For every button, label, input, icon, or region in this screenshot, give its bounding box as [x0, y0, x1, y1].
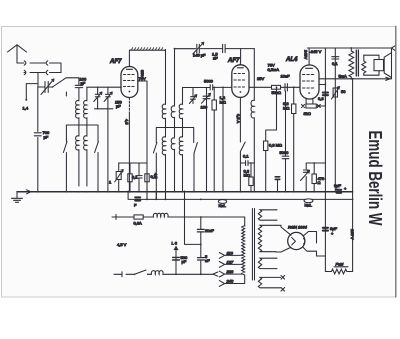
mains RF choke upper	[143, 213, 245, 217]
voltage selector fork 240	[219, 275, 244, 286]
rectifier tube RGN1064	[288, 232, 305, 249]
capacitor 0,1uF on screen line	[332, 57, 339, 59]
output transformer primary	[349, 48, 354, 79]
resistor 0,3M	[264, 141, 268, 191]
svg-text:140 pF: 140 pF	[193, 53, 206, 58]
svg-text:nF: nF	[213, 56, 218, 61]
heater sub-line below bus	[128, 191, 353, 199]
svg-text:0,5mA: 0,5mA	[268, 67, 280, 72]
mains filter cap branch	[200, 216, 202, 275]
wire: AF7 no.2 cathode down with switch	[240, 97, 245, 191]
ground symbol	[12, 192, 23, 203]
svg-text:5000: 5000	[280, 150, 290, 155]
grid line into AF7 no.2 with series cap 5000pF	[183, 85, 232, 90]
capacitor 5000pF mains	[198, 258, 205, 260]
voltage selector fork 127	[219, 262, 241, 268]
wire: feed line of above-bus components	[119, 162, 147, 164]
trimmer on grid line	[189, 88, 196, 104]
antenna coil L4 (lower)	[84, 125, 87, 186]
resistor 470	[312, 162, 316, 191]
antenna	[8, 45, 27, 63]
wire: to transformer primary top	[244, 217, 246, 226]
trimmer 140pF	[193, 42, 204, 54]
trimmer T2	[104, 87, 112, 109]
primary taps	[0, 0, 1, 1]
svg-text:AF7: AF7	[227, 58, 240, 64]
switch blade right of coil unit	[95, 142, 99, 192]
svg-text:4,5 V: 4,5 V	[117, 242, 127, 247]
mains RF choke lower	[151, 271, 213, 276]
switch blade (band switch)	[52, 78, 79, 88]
output transformer secondary	[362, 55, 366, 75]
svg-text:1,4: 1,4	[23, 106, 29, 111]
rectifier output lead	[303, 232, 316, 244]
antenna coil L2	[84, 87, 87, 125]
components row above bus: var resistor	[115, 163, 124, 191]
wire: trimmer bottom rail	[95, 109, 113, 191]
svg-text:350: 350	[140, 70, 145, 77]
capacitor coupling to AL4	[285, 84, 287, 91]
svg-text:MΩ: MΩ	[283, 106, 289, 111]
rectifier filament loop	[276, 247, 325, 256]
resistor 0,8M AL4 grid leak	[292, 86, 296, 191]
secondary S2 HV	[258, 225, 276, 251]
wire: plate line 5mA to output transformer	[319, 47, 392, 80]
svg-text:5mA: 5mA	[339, 74, 348, 79]
svg-text:0,1: 0,1	[332, 61, 338, 66]
svg-text:11nF: 11nF	[205, 228, 214, 233]
capacitor 100pF	[75, 78, 83, 101]
svg-text:NaL: NaL	[219, 203, 227, 208]
svg-text:0,3 MΩ: 0,3 MΩ	[269, 143, 282, 148]
svg-text:0,8: 0,8	[318, 96, 324, 101]
svg-text:5000: 5000	[204, 79, 214, 84]
fuse NaL right	[304, 199, 313, 203]
svg-text:pF: pF	[116, 104, 121, 109]
anode coil AF7 no.2	[251, 100, 254, 191]
svg-text:AF7: AF7	[109, 59, 122, 65]
svg-text:0,5 A: 0,5 A	[236, 114, 241, 123]
capacitor 5000pF to bus	[275, 91, 289, 191]
svg-text:245V: 245V	[304, 50, 309, 60]
tube AF7 no.2 top cap wire	[240, 49, 242, 63]
secondary S4 bottom	[258, 277, 280, 287]
lamp arrow L6	[173, 246, 178, 275]
svg-text:195 V: 195 V	[350, 229, 355, 240]
antenna coil L3 (lower)	[76, 136, 79, 186]
wire: AVC return line	[222, 87, 224, 192]
svg-text:Emud Berlin W: Emud Berlin W	[365, 131, 385, 226]
wire: bus drop to mains filter caps	[185, 191, 202, 245]
capacitor above bus	[136, 163, 142, 191]
fuse 0,6A	[134, 215, 143, 219]
wire: oscillator top rail with 140pF trimmer	[174, 48, 255, 50]
capacitor 500pF on lamp line	[173, 257, 180, 260]
secondary S1 top	[258, 210, 277, 220]
junction dots on bus	[37, 191, 354, 200]
electrolytic 8uF no.2	[323, 228, 328, 231]
tube AL4	[300, 48, 319, 99]
power transformer core	[252, 209, 254, 281]
wire: down to AF7 no.2 anode coil	[253, 49, 255, 101]
wire: AF7 no.2 plate coupling to AL4	[249, 86, 300, 88]
svg-text:0,1: 0,1	[243, 154, 249, 159]
IF coil unit: column 1 wire	[165, 49, 167, 104]
capacitor 700pF	[34, 133, 41, 136]
wire: screen feed with cap and variable resistor	[334, 48, 336, 191]
electrolytic on cathode line	[323, 93, 328, 96]
tube AF7 no.2	[232, 62, 249, 97]
svg-text:10nF: 10nF	[281, 74, 291, 79]
svg-text:RGN 1064: RGN 1064	[288, 225, 308, 230]
svg-text:110: 110	[227, 250, 234, 255]
mains input upper branch	[112, 215, 134, 220]
svg-text:NaL: NaL	[305, 203, 313, 208]
right page edge dark line	[395, 27, 397, 298]
svg-text:Ω: Ω	[318, 180, 321, 185]
wire: AL4 screen to decoupling	[319, 84, 326, 86]
IF coil unit: column 2 wire	[174, 49, 176, 106]
IF coil unit: coil A2 (lower)	[162, 137, 165, 200]
shielded top lead from AF7 no.1 (hatched line)	[129, 48, 165, 62]
svg-text:0,6A: 0,6A	[134, 221, 143, 226]
svg-text:240: 240	[226, 278, 234, 283]
resistor above bus 2	[145, 174, 149, 191]
svg-text:Feld: Feld	[336, 262, 345, 267]
trimmer T1	[94, 87, 102, 109]
switch blade left of IF unit	[153, 143, 157, 200]
fuse NaL left	[218, 200, 226, 204]
page frame	[2, 27, 396, 298]
svg-text:100: 100	[201, 105, 208, 110]
field coil Feld	[325, 267, 352, 274]
svg-text:-245 V: -245 V	[310, 49, 322, 54]
wire: detour to resistor 0,3M	[266, 86, 278, 141]
switch blade right of IF unit	[194, 143, 197, 192]
wire: AF7 no.1 plate to right	[138, 81, 147, 199]
voltage selector fork 220	[213, 271, 242, 277]
node terminal 1,4	[25, 84, 38, 101]
wire: link bar of antenna coil unit	[66, 92, 98, 142]
svg-text:0,1: 0,1	[151, 174, 157, 179]
output transformer core	[356, 50, 358, 76]
variable capacitor (tuning gang section 1)	[38, 79, 54, 95]
svg-text:pF: pF	[81, 81, 86, 86]
wire: AF7 no.1 cathode down	[128, 98, 130, 192]
IF coil unit: coil C1	[179, 104, 182, 137]
svg-text:8μF: 8μF	[334, 183, 342, 188]
tube AF7 no.1	[121, 62, 138, 98]
svg-text:MΩ: MΩ	[244, 173, 250, 178]
rectifier anode leads	[276, 225, 291, 235]
wire: down from selector to tuning section	[37, 73, 39, 88]
svg-text:5kΩ: 5kΩ	[304, 111, 311, 116]
svg-text:pF: pF	[182, 259, 187, 264]
svg-text:220: 220	[226, 269, 234, 274]
electrolytic 8uF on bus	[337, 190, 342, 193]
IF coil unit: coil B1	[171, 106, 174, 137]
wire: antenna feed down to chassis bus	[37, 87, 39, 191]
junction drops bus to sub-line	[147, 191, 166, 199]
AL4 cathode resistor 5k with X ends	[302, 92, 326, 108]
svg-text:L 6: L 6	[172, 241, 178, 246]
wire: aerial selector row 2	[24, 70, 61, 74]
svg-text:50: 50	[341, 89, 346, 94]
IF coil unit: coil A1	[162, 104, 165, 137]
wire: rectifier output up to filter	[324, 163, 326, 272]
mains input lower branch with switch	[114, 270, 152, 277]
svg-text:AL4: AL4	[285, 57, 298, 63]
wire: IF unit link bar	[156, 128, 193, 143]
svg-text:75V: 75V	[139, 76, 146, 81]
svg-text:25V: 25V	[257, 76, 264, 81]
chassis ground bus	[17, 190, 353, 194]
wire: grid rail to AF7 no.1	[87, 86, 121, 88]
capacitor 0,1uF cathode bypass	[240, 161, 254, 166]
secondary S3	[258, 258, 277, 268]
svg-text:pF: pF	[44, 135, 49, 140]
trimmer 100pF on AVC line	[202, 93, 211, 103]
capacitor 1,5nF series	[223, 44, 226, 52]
IF coil unit: coil B2 (lower)	[171, 138, 174, 191]
capacitor 11nF	[197, 229, 204, 232]
wire: cathode RC to bus	[301, 163, 326, 191]
speaker	[364, 53, 392, 78]
resistor 0,8M cathode	[249, 162, 253, 191]
svg-text:nF: nF	[205, 258, 210, 263]
terminal X marks S4	[281, 276, 285, 292]
variable resistor 50	[332, 87, 340, 100]
wire: aerial selector row 1	[17, 61, 61, 73]
resistor 1,2M grid leak AF7 no.2	[212, 87, 216, 192]
svg-text:127: 127	[227, 259, 234, 264]
B+ rail 245V	[308, 46, 395, 50]
switch blade left of coil unit	[63, 142, 67, 192]
wire: AVC line down to bus	[206, 87, 208, 191]
resistor 50k coupling	[272, 85, 281, 89]
wire: cathode network vertical	[324, 48, 326, 163]
resistor above bus 1	[128, 163, 132, 191]
IF coil unit: column 3 wire	[182, 88, 184, 105]
power transformer primary	[242, 226, 245, 276]
svg-text:4,5: 4,5	[125, 119, 130, 125]
wire: 195V line down to field coil	[352, 79, 354, 272]
antenna coil L1	[76, 100, 79, 135]
voltage selector fork 110	[219, 253, 241, 259]
IF coil unit: coil C2 (lower)	[179, 137, 182, 192]
electrolytic on heater line	[135, 197, 140, 200]
